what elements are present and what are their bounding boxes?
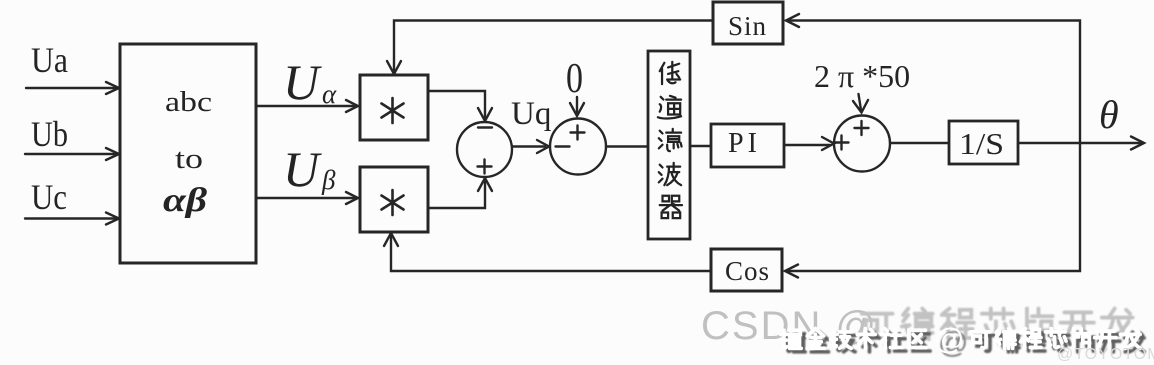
svg-text:abc: abc — [165, 86, 212, 118]
watermark juejin shadow — [785, 327, 1145, 360]
sign minus S1 — [478, 126, 492, 128]
wire theta output — [1018, 142, 1142, 144]
wire Uc input — [25, 217, 117, 219]
svg-text:@: @ — [934, 323, 964, 356]
summer S1 — [457, 122, 512, 177]
svg-text:α: α — [322, 79, 337, 109]
sign plus S2 — [571, 126, 585, 140]
label low-pass-filter char di — [660, 62, 680, 84]
sign plus S1 — [478, 160, 492, 174]
wire feedback vertical upper — [788, 21, 1080, 144]
wire summer3 to 1/S — [890, 142, 949, 144]
label low-pass-filter char tong — [658, 96, 681, 119]
wire summer2 to LPF — [606, 145, 648, 147]
wire PI to summer3 — [784, 144, 830, 146]
svg-text:1/S: 1/S — [959, 126, 1004, 161]
wire summer1 to summer2 — [512, 145, 545, 147]
wire Ua input — [26, 87, 117, 89]
multiplier box upper — [360, 75, 428, 140]
wire Ub input — [25, 153, 117, 155]
wire Sin feedback to upper multiplier — [394, 21, 713, 72]
watermark CSDN chinese chars — [862, 309, 1133, 340]
star symbol lower multiplier — [382, 190, 404, 215]
sign minus S2 — [556, 145, 570, 147]
label low-pass-filter char lv — [659, 129, 682, 151]
block 1/S — [949, 121, 1018, 164]
block abc-to-alphabeta — [120, 44, 256, 263]
block Sin — [713, 2, 783, 44]
svg-text:Ua: Ua — [31, 40, 68, 80]
wire Cos feedback to lower multiplier — [391, 236, 711, 271]
svg-text:Uq: Uq — [511, 96, 551, 132]
svg-text:U: U — [283, 141, 322, 197]
wire LPF to PI — [690, 145, 711, 147]
svg-text:2 π *50: 2 π *50 — [814, 58, 910, 94]
wire zero into summer2 — [576, 97, 578, 113]
watermark juejin white text — [781, 323, 1141, 356]
block Cos — [711, 249, 782, 291]
block PI — [711, 124, 784, 167]
wire upper multiplier to summer1 top — [428, 91, 485, 118]
wire lower multiplier to summer1 bottom — [428, 182, 485, 208]
summer S2 — [550, 119, 606, 175]
svg-text:Sin: Sin — [728, 11, 767, 41]
summer S3 — [834, 116, 890, 172]
svg-text:αβ: αβ — [163, 182, 208, 219]
wire U-alpha — [256, 105, 355, 107]
wire U-beta — [256, 197, 355, 199]
svg-text:Uc: Uc — [31, 177, 67, 217]
svg-text:θ: θ — [1099, 92, 1119, 137]
svg-text:β: β — [321, 165, 336, 195]
multiplier box lower — [360, 167, 428, 232]
wire 2pi50 into summer3 — [859, 94, 862, 110]
svg-text:U: U — [283, 54, 322, 110]
svg-text:Cos: Cos — [725, 256, 770, 286]
svg-text:PI: PI — [728, 128, 761, 159]
svg-text:@TOYOTOM: @TOYOTOM — [1057, 346, 1154, 363]
label low-pass-filter char bo — [659, 163, 681, 185]
wire feedback vertical lower — [787, 143, 1080, 271]
block low-pass filter — [648, 51, 690, 239]
svg-text:to: to — [175, 143, 203, 175]
svg-text:0: 0 — [566, 56, 583, 102]
label low-pass-filter char qi — [660, 196, 682, 218]
sign plus S3 top — [855, 121, 869, 135]
svg-text:Ub: Ub — [31, 114, 68, 154]
star symbol upper multiplier — [382, 98, 404, 123]
sign plus S3 left — [835, 136, 849, 150]
